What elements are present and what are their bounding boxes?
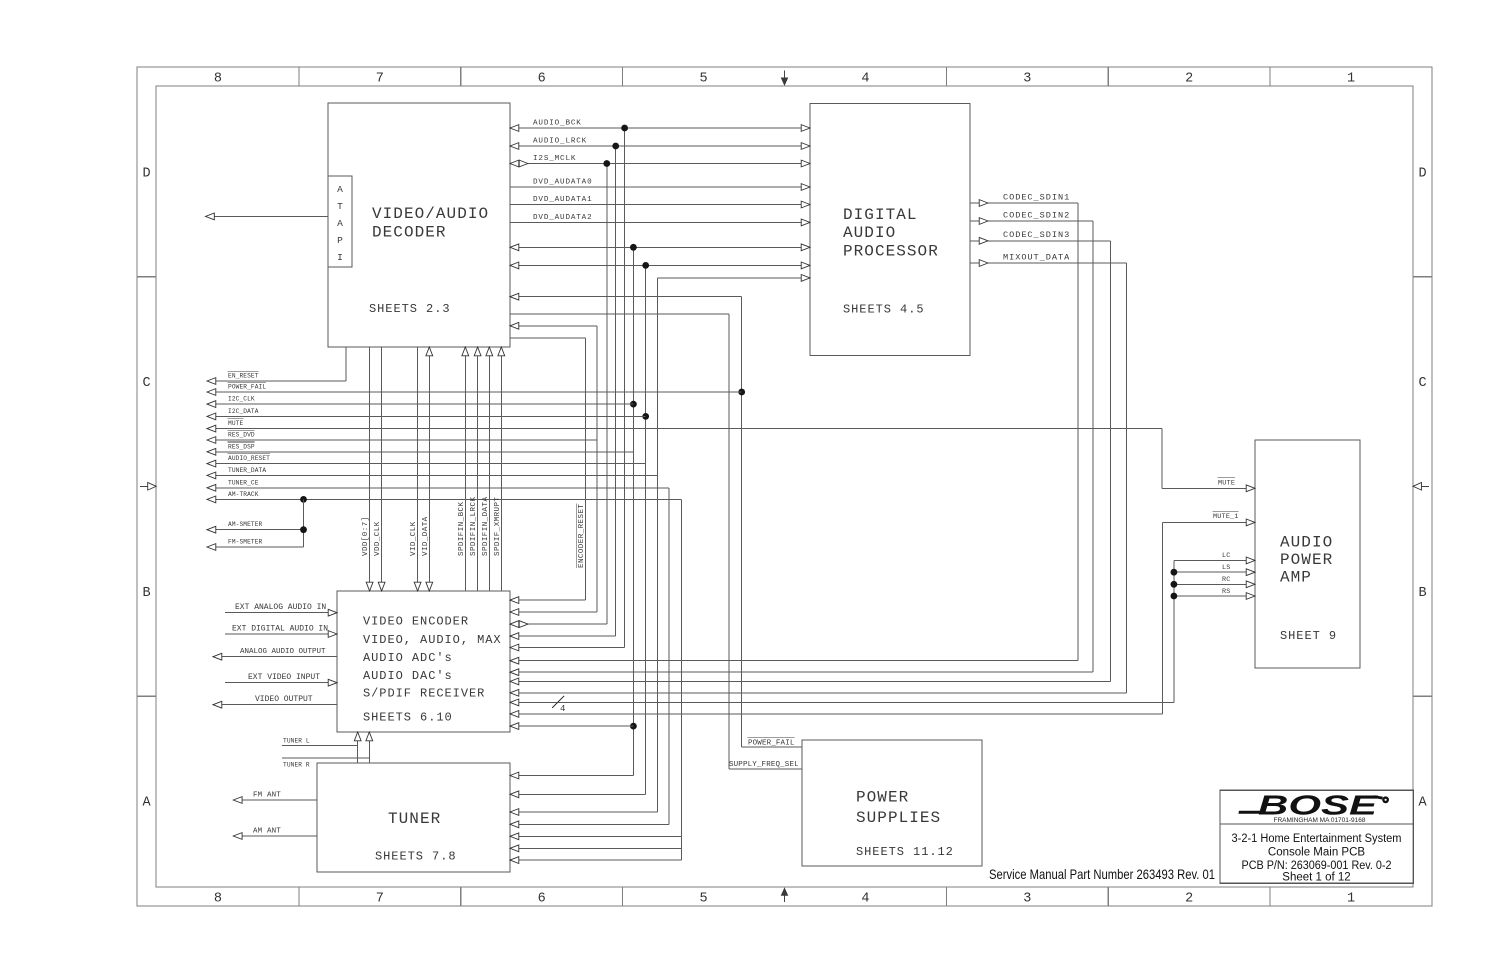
label VDD[0:7] (vertical) bbox=[362, 516, 370, 556]
label SUPPLY_FREQ_SEL bbox=[729, 761, 799, 769]
svg-text:2: 2 bbox=[1185, 892, 1193, 907]
svg-text:LC: LC bbox=[1222, 552, 1231, 560]
wire DVD_AUDATA2 bbox=[510, 219, 810, 226]
svg-text:SUPPLIES: SUPPLIES bbox=[856, 809, 941, 827]
label CODEC_SDIN3 bbox=[1003, 230, 1070, 240]
svg-text:AM-SMETER: AM-SMETER bbox=[228, 521, 263, 528]
svg-text:BOSE: BOSE bbox=[1258, 790, 1379, 821]
svg-text:MUTE_1: MUTE_1 bbox=[1213, 513, 1239, 521]
service manual note bbox=[989, 866, 1215, 882]
wire EN_RESET decoder bottom to left bbox=[207, 347, 346, 384]
label DVD_AUDATA1 bbox=[533, 196, 592, 204]
svg-text:POWER_FAIL: POWER_FAIL bbox=[228, 384, 266, 391]
svg-text:RC: RC bbox=[1222, 576, 1231, 584]
svg-text:SPDIFIN_BCK: SPDIFIN_BCK bbox=[458, 501, 466, 556]
centering mark right bbox=[1413, 483, 1429, 491]
svg-text:4: 4 bbox=[861, 72, 869, 87]
ATAPI port box on decoder bbox=[328, 176, 352, 267]
wire ATAPI bus out of decoder bbox=[206, 213, 329, 220]
svg-text:LS: LS bbox=[1222, 564, 1231, 572]
label MUTE_1 bbox=[1213, 511, 1239, 521]
svg-text:AUDIO DAC's: AUDIO DAC's bbox=[363, 669, 453, 683]
svg-text:SPDIF_XMRUPT: SPDIF_XMRUPT bbox=[494, 497, 502, 556]
label I2C_CLK bbox=[228, 396, 255, 403]
svg-text:PROCESSOR: PROCESSOR bbox=[843, 243, 939, 261]
svg-text:I2C_DATA: I2C_DATA bbox=[228, 408, 259, 415]
svg-text:CODEC_SDIN1: CODEC_SDIN1 bbox=[1003, 193, 1070, 203]
label FM-SMETER bbox=[228, 539, 263, 546]
label SPDIF_XMRUPT (vertical) bbox=[494, 497, 502, 556]
label RS bbox=[1222, 588, 1231, 596]
svg-text:Sheet 1 of 12: Sheet 1 of 12 bbox=[1282, 872, 1350, 884]
svg-text:6: 6 bbox=[538, 892, 546, 907]
svg-text:EXT DIGITAL AUDIO IN: EXT DIGITAL AUDIO IN bbox=[232, 624, 328, 633]
svg-text:B: B bbox=[142, 586, 150, 601]
svg-text:TUNER R: TUNER R bbox=[283, 762, 310, 769]
svg-text:EXT VIDEO INPUT: EXT VIDEO INPUT bbox=[248, 673, 320, 682]
label MUTE (amp) bbox=[1218, 478, 1236, 488]
label EXT VIDEO INPUT bbox=[248, 673, 320, 682]
svg-text:VIDEO/AUDIO: VIDEO/AUDIO bbox=[372, 205, 489, 223]
svg-text:VIDEO, AUDIO, MAX: VIDEO, AUDIO, MAX bbox=[363, 633, 502, 647]
wire decoder-DAP data 8 / I2C_DATA branch to tuner bbox=[510, 262, 810, 798]
svg-text:EXT ANALOG AUDIO IN: EXT ANALOG AUDIO IN bbox=[235, 603, 326, 612]
svg-text:DECODER: DECODER bbox=[372, 224, 447, 242]
svg-text:Console Main PCB: Console Main PCB bbox=[1268, 847, 1365, 859]
wire encoder aux to tuner trunk dot bbox=[510, 723, 633, 730]
wire AUDIO_BCK net bbox=[510, 125, 810, 651]
block U-AMP AUDIO POWER AMP sheet 9 bbox=[1255, 440, 1360, 668]
svg-text:FRAMINGHAM MA 01701-9168: FRAMINGHAM MA 01701-9168 bbox=[1274, 817, 1367, 824]
block U-DECODER VIDEO/AUDIO DECODER sheets 2,3 bbox=[328, 103, 510, 347]
svg-text:4: 4 bbox=[560, 704, 565, 714]
wire ANALOG AUDIO OUTPUT bbox=[213, 653, 337, 660]
svg-text:AUDIO_BCK: AUDIO_BCK bbox=[533, 120, 582, 128]
label CODEC_SDIN1 bbox=[1003, 193, 1070, 203]
label VID_CLK (vertical) bbox=[410, 521, 418, 556]
svg-text:TUNER_DATA: TUNER_DATA bbox=[228, 467, 266, 474]
label TUNER_DATA bbox=[228, 467, 266, 474]
row zone letters left bbox=[142, 167, 151, 811]
sheet outer border frame bbox=[137, 67, 1432, 906]
svg-text:P: P bbox=[337, 235, 343, 246]
svg-text:A: A bbox=[337, 184, 343, 195]
svg-text:VIDEO OUTPUT: VIDEO OUTPUT bbox=[255, 695, 313, 704]
svg-text:7: 7 bbox=[376, 892, 384, 907]
svg-text:FM ANT: FM ANT bbox=[253, 791, 281, 799]
wire I2C_DATA bbox=[207, 413, 646, 420]
svg-text:D: D bbox=[1418, 167, 1426, 182]
label RC bbox=[1222, 576, 1231, 584]
wire AUDIO_LRCK net bbox=[510, 143, 810, 640]
svg-text:5: 5 bbox=[699, 72, 707, 87]
svg-text:POWER: POWER bbox=[856, 789, 909, 807]
wire MUTE_1 encoder to amp bbox=[510, 519, 1255, 717]
wire AM-TRACK trunk to tuner bbox=[207, 496, 682, 864]
svg-text:CODEC_SDIN3: CODEC_SDIN3 bbox=[1003, 230, 1070, 240]
wire speaker bus /4 encoder to amp LC LS RC RS bbox=[510, 557, 1255, 706]
svg-text:SHEETS 7.8: SHEETS 7.8 bbox=[375, 850, 457, 864]
svg-text:8: 8 bbox=[214, 72, 222, 87]
label SPDIFIN_DATA (vertical) bbox=[482, 497, 490, 556]
svg-text:SHEETS 6.10: SHEETS 6.10 bbox=[363, 711, 453, 725]
wire ENCODER_RESET decoder to encoder bbox=[510, 338, 586, 604]
svg-text:DVD_AUDATA2: DVD_AUDATA2 bbox=[533, 214, 592, 222]
svg-text:3-2-1 Home Entertainment Syste: 3-2-1 Home Entertainment System bbox=[1232, 833, 1402, 845]
wire FM ANT bbox=[233, 797, 317, 804]
svg-text:POWER: POWER bbox=[1280, 551, 1333, 569]
svg-text:4: 4 bbox=[861, 892, 869, 907]
title block box bbox=[1220, 790, 1413, 883]
label AM ANT bbox=[253, 827, 281, 835]
svg-text:S/PDIF RECEIVER: S/PDIF RECEIVER bbox=[363, 687, 485, 701]
svg-text:AUDIO_RESET: AUDIO_RESET bbox=[228, 455, 270, 462]
svg-text:AUDIO: AUDIO bbox=[1280, 534, 1333, 552]
row tick marks left border bbox=[137, 277, 156, 697]
wire SPDIF_XMRUPT encoder to decoder bbox=[498, 347, 505, 591]
svg-text:MUTE: MUTE bbox=[1218, 480, 1235, 488]
svg-text:VDD_CLK: VDD_CLK bbox=[374, 521, 382, 556]
label VIDEO OUTPUT bbox=[255, 695, 313, 704]
column tick marks bottom border bbox=[299, 887, 1270, 906]
svg-text:T: T bbox=[337, 201, 343, 212]
svg-text:1: 1 bbox=[1347, 72, 1355, 87]
label EXT ANALOG AUDIO IN bbox=[235, 603, 326, 612]
wire CODEC_SDIN2 DAP to encoder bbox=[510, 218, 1093, 676]
svg-text:AUDIO ADC's: AUDIO ADC's bbox=[363, 651, 453, 665]
svg-text:PCB P/N: 263069-001 Rev. 0-2: PCB P/N: 263069-001 Rev. 0-2 bbox=[1242, 860, 1392, 872]
BOSE logo bbox=[1238, 790, 1389, 821]
label AUDIO_BCK bbox=[533, 120, 582, 128]
svg-text:CODEC_SDIN2: CODEC_SDIN2 bbox=[1003, 211, 1070, 221]
svg-text:ENCODER_RESET: ENCODER_RESET bbox=[578, 504, 586, 568]
block U-TUNER TUNER sheets 7,8 bbox=[317, 763, 510, 872]
svg-text:A: A bbox=[337, 218, 343, 229]
wire I2C_CLK bbox=[207, 401, 633, 408]
svg-text:VDD[0:7]: VDD[0:7] bbox=[362, 516, 370, 556]
svg-text:RES_DSP: RES_DSP bbox=[228, 443, 255, 450]
svg-text:VIDEO ENCODER: VIDEO ENCODER bbox=[363, 615, 469, 629]
svg-text:D: D bbox=[142, 167, 150, 182]
svg-text:SHEETS 4.5: SHEETS 4.5 bbox=[843, 303, 925, 317]
wire MIXOUT_DATA DAP to encoder bbox=[510, 260, 1127, 697]
svg-text:ANALOG AUDIO OUTPUT: ANALOG AUDIO OUTPUT bbox=[240, 648, 326, 656]
column zone numbers top bbox=[214, 72, 1355, 87]
BOSE address line bbox=[1274, 817, 1367, 824]
label EN_RESET bbox=[228, 371, 259, 379]
wire decoder-DAP data 9 / TUNER_DATA trunk to tuner bbox=[510, 275, 810, 816]
wire RES_DVD bbox=[207, 437, 597, 444]
label ANALOG AUDIO OUTPUT bbox=[240, 648, 326, 656]
label POWER_FAIL bbox=[228, 382, 267, 390]
block U-PSU POWER SUPPLIES sheets 11,12 bbox=[802, 740, 982, 866]
label SPDIFIN_BCK (vertical) bbox=[458, 501, 466, 556]
label RES_DSP bbox=[228, 442, 255, 450]
svg-text:2: 2 bbox=[1185, 72, 1193, 87]
wire decoder to encoder RES_DVD riser bbox=[510, 322, 597, 615]
label SPDIFIN_LRCK (vertical) bbox=[470, 497, 478, 556]
title block text lines bbox=[1232, 833, 1402, 884]
wire decoder-DAP data 7 / I2C_CLK branch to tuner bbox=[510, 244, 810, 779]
svg-text:B: B bbox=[1418, 586, 1426, 601]
centering mark top bbox=[781, 71, 789, 87]
centering mark left bbox=[140, 483, 156, 491]
svg-text:RES_DVD: RES_DVD bbox=[228, 432, 255, 439]
label DVD_AUDATA0 bbox=[533, 179, 592, 187]
label AM-TRACK bbox=[228, 491, 259, 498]
svg-text:SUPPLY_FREQ_SEL: SUPPLY_FREQ_SEL bbox=[729, 761, 799, 769]
svg-text:1: 1 bbox=[1347, 892, 1355, 907]
svg-text:POWER_FAIL: POWER_FAIL bbox=[748, 740, 795, 748]
label AM-SMETER bbox=[228, 521, 263, 528]
wire DVD_AUDATA0 bbox=[510, 184, 810, 191]
label ENCODER_RESET (vertical) bbox=[576, 504, 586, 569]
label AUDIO_LRCK bbox=[533, 138, 587, 146]
svg-text:DIGITAL: DIGITAL bbox=[843, 206, 918, 224]
wire EXT VIDEO INPUT bbox=[225, 679, 337, 686]
svg-text:3: 3 bbox=[1023, 892, 1031, 907]
wire RES_DSP bbox=[207, 448, 633, 455]
svg-text:AUDIO: AUDIO bbox=[843, 224, 896, 242]
sheet inner border frame bbox=[156, 86, 1413, 887]
svg-text:AM-TRACK: AM-TRACK bbox=[228, 491, 259, 498]
label AUDIO_RESET bbox=[228, 454, 271, 462]
svg-text:6: 6 bbox=[538, 72, 546, 87]
wire CODEC_SDIN1 DAP to encoder bbox=[510, 200, 1078, 664]
wire SPDIFIN_DATA encoder to decoder bbox=[486, 347, 493, 591]
wire MUTE left to amp bbox=[207, 425, 1255, 492]
wire I2S_MCLK net (bidirectional) bbox=[510, 160, 810, 627]
label LS bbox=[1222, 564, 1231, 572]
wire TUNER_DATA bbox=[207, 472, 658, 479]
svg-text:I2C_CLK: I2C_CLK bbox=[228, 396, 255, 403]
svg-text:MIXOUT_DATA: MIXOUT_DATA bbox=[1003, 253, 1070, 263]
wire VID_DATA bidirectional bbox=[426, 347, 433, 591]
svg-text:8: 8 bbox=[214, 892, 222, 907]
wire DVD_AUDATA1 bbox=[510, 201, 810, 208]
svg-text:A: A bbox=[142, 796, 151, 811]
label POWER_FAIL (PSU input) bbox=[748, 737, 795, 747]
label I2C_DATA bbox=[228, 408, 259, 415]
label TUNER R bbox=[283, 762, 310, 769]
svg-text:TUNER: TUNER bbox=[388, 810, 441, 828]
label EXT DIGITAL AUDIO IN bbox=[232, 624, 328, 633]
label CODEC_SDIN2 bbox=[1003, 211, 1070, 221]
wire AM ANT bbox=[233, 833, 317, 840]
svg-text:A: A bbox=[1418, 796, 1427, 811]
wire EXT ANALOG AUDIO IN bbox=[225, 609, 337, 616]
svg-text:SHEET 9: SHEET 9 bbox=[1280, 629, 1337, 643]
block U-ENC VIDEO ENCODER / ADC / DAC / SPDIF sheets 6,10 bbox=[337, 591, 510, 732]
wire VID_CLK decoder to encoder bbox=[414, 347, 421, 591]
label TUNER_CE bbox=[228, 479, 259, 486]
wire SPDIFIN_BCK encoder to decoder bbox=[462, 347, 469, 591]
svg-text:SPDIFIN_LRCK: SPDIFIN_LRCK bbox=[470, 497, 478, 556]
svg-text:MUTE: MUTE bbox=[228, 420, 243, 427]
svg-text:AM ANT: AM ANT bbox=[253, 827, 281, 835]
wire VDD_CLK decoder to encoder bbox=[378, 347, 385, 591]
label MUTE (left) bbox=[228, 419, 244, 427]
wire EXT DIGITAL AUDIO IN bbox=[225, 631, 337, 638]
label DVD_AUDATA2 bbox=[533, 214, 592, 222]
wire decoder to POWER_FAIL riser bbox=[510, 293, 802, 747]
row tick marks right border bbox=[1413, 277, 1432, 697]
svg-text:C: C bbox=[1418, 376, 1426, 391]
svg-text:VID_DATA: VID_DATA bbox=[422, 516, 430, 556]
svg-text:SHEETS 2.3: SHEETS 2.3 bbox=[369, 302, 451, 316]
svg-text:Service Manual Part Number 263: Service Manual Part Number 263493 Rev. 0… bbox=[989, 866, 1215, 882]
svg-text:SHEETS 11.12: SHEETS 11.12 bbox=[856, 845, 954, 859]
block U-DAP DIGITAL AUDIO PROCESSOR sheets 4,5 bbox=[810, 104, 970, 356]
wire TUNER R to encoder bbox=[282, 732, 373, 763]
svg-text:TUNER L: TUNER L bbox=[283, 738, 310, 745]
svg-text:AMP: AMP bbox=[1280, 569, 1312, 587]
label VDD_CLK (vertical) bbox=[374, 521, 382, 556]
svg-text:I2S_MCLK: I2S_MCLK bbox=[533, 155, 576, 163]
wire TUNER L to encoder bbox=[282, 732, 361, 763]
wire VDD[0:7] decoder to encoder bbox=[366, 347, 373, 591]
svg-text:5: 5 bbox=[699, 892, 707, 907]
wire CODEC_SDIN3 DAP to encoder bbox=[510, 237, 1111, 684]
label LC bbox=[1222, 552, 1231, 560]
column zone numbers bottom bbox=[214, 892, 1355, 907]
label TUNER L bbox=[283, 738, 310, 745]
wire AM-SMETER bbox=[207, 499, 307, 547]
svg-text:EN_RESET: EN_RESET bbox=[228, 373, 259, 380]
wire TUNER_CE trunk to tuner bbox=[207, 484, 669, 827]
label MIXOUT_DATA bbox=[1003, 253, 1070, 263]
svg-text:7: 7 bbox=[376, 72, 384, 87]
svg-text:DVD_AUDATA1: DVD_AUDATA1 bbox=[533, 196, 592, 204]
svg-text:VID_CLK: VID_CLK bbox=[410, 521, 418, 556]
svg-text:SPDIFIN_DATA: SPDIFIN_DATA bbox=[482, 497, 490, 556]
label FM ANT bbox=[253, 791, 281, 799]
bus width marker /4 bbox=[552, 696, 565, 714]
label VID_DATA (vertical) bbox=[422, 516, 430, 556]
svg-text:I: I bbox=[337, 252, 343, 263]
wire decoder to SUPPLY_FREQ_SEL riser bbox=[510, 314, 802, 769]
wire SPDIFIN_LRCK encoder to decoder bbox=[474, 347, 481, 591]
row zone letters right bbox=[1418, 167, 1427, 811]
svg-text:TUNER_CE: TUNER_CE bbox=[228, 479, 259, 486]
svg-text:RS: RS bbox=[1222, 588, 1231, 596]
svg-text:3: 3 bbox=[1023, 72, 1031, 87]
wire POWER_FAIL left to PSU riser bbox=[207, 389, 742, 396]
svg-text:DVD_AUDATA0: DVD_AUDATA0 bbox=[533, 179, 592, 187]
wire AUDIO_RESET bbox=[207, 460, 646, 467]
label I2S_MCLK bbox=[533, 155, 576, 163]
wire VIDEO OUTPUT bbox=[213, 701, 337, 708]
centering mark bottom bbox=[781, 887, 789, 902]
svg-text:C: C bbox=[142, 376, 150, 391]
wire FM-SMETER bbox=[207, 544, 304, 551]
column tick marks top border bbox=[299, 67, 1270, 86]
svg-text:AUDIO_LRCK: AUDIO_LRCK bbox=[533, 138, 587, 146]
label RES_DVD bbox=[228, 430, 255, 438]
svg-text:FM-SMETER: FM-SMETER bbox=[228, 539, 263, 546]
